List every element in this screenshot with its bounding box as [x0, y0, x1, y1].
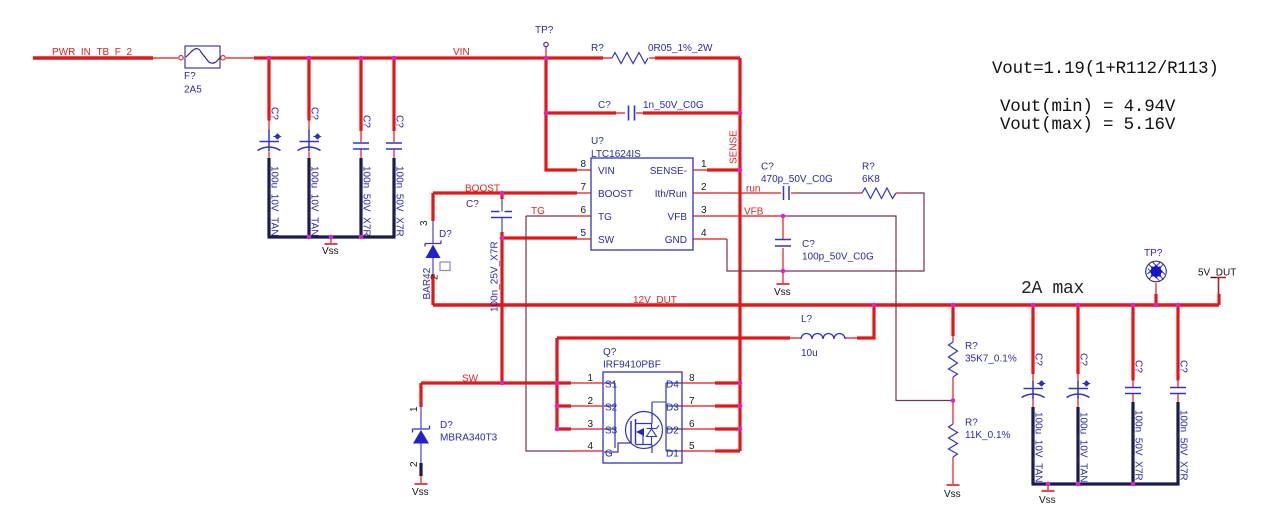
svg-text:MBRA340T3: MBRA340T3 [440, 433, 498, 444]
wire input cap1 top [267, 58, 270, 121]
svg-text:Vss: Vss [774, 287, 791, 298]
wire GND pin4 [707, 238, 727, 240]
wire boost cap column bottom to SW [500, 232, 503, 383]
svg-text:5V_DUT: 5V_DUT [1198, 268, 1236, 279]
svg-text:D?: D? [439, 229, 452, 240]
port 5V_DUT bar [1211, 278, 1226, 295]
svg-text:2: 2 [701, 182, 707, 193]
wire input Vss stub [330, 237, 332, 243]
svg-text:R?: R? [965, 418, 978, 429]
svg-text:5: 5 [689, 441, 695, 452]
svg-text:IRF9410PBF: IRF9410PBF [603, 360, 661, 371]
wire 6K8 stubs [858, 192, 901, 194]
junction dot divider [951, 398, 956, 403]
svg-text:VFB: VFB [744, 207, 764, 218]
wire input cap2 top [307, 58, 310, 121]
junction dots S bus [555, 404, 560, 409]
svg-text:G: G [605, 449, 613, 460]
svg-text:BAR42: BAR42 [422, 267, 433, 299]
svg-text:35K7_0.1%: 35K7_0.1% [965, 354, 1017, 365]
resistor R 35K7 zigzag [949, 342, 958, 377]
svg-text:SENSE-: SENSE- [650, 166, 687, 177]
svg-text:100u_10V_TAN: 100u_10V_TAN [1078, 412, 1089, 482]
wire input cap3 top [359, 58, 362, 131]
svg-text:C?: C? [466, 199, 479, 210]
svg-text:8: 8 [580, 159, 586, 170]
svg-text:C?: C? [269, 107, 280, 120]
svg-text:C?: C? [394, 115, 405, 128]
wire VFB net [783, 216, 953, 401]
wire ith network [727, 193, 924, 271]
fuse F1 terminals [179, 56, 183, 60]
wire TG net [526, 216, 577, 451]
svg-text:D3: D3 [666, 403, 679, 414]
svg-text:100u_10V_TAN: 100u_10V_TAN [269, 166, 280, 236]
svg-text:TG: TG [531, 206, 545, 217]
wire MBRA gnd segment [419, 463, 422, 476]
svg-text:8: 8 [689, 373, 695, 384]
svg-text:470p_50V_C0G: 470p_50V_C0G [761, 174, 833, 185]
svg-text:TP?: TP? [1144, 248, 1163, 259]
capacitor C input2 plus [313, 134, 321, 139]
junction dots 12V rail [872, 303, 877, 308]
capacitor C out4 100n plates [1170, 388, 1186, 394]
svg-text:TP?: TP? [535, 25, 554, 36]
wire PWR_IN segment [33, 56, 153, 59]
svg-text:BOOST: BOOST [465, 184, 500, 195]
svg-text:C?: C? [1133, 360, 1144, 373]
IC U1 body [591, 158, 693, 250]
resistor R 6K8 zigzag [862, 188, 896, 199]
svg-text:10u: 10u [801, 348, 818, 359]
wire output cap tops [1033, 305, 1178, 381]
svg-text:100u_10V_TAN: 100u_10V_TAN [309, 166, 320, 236]
junction dots SW line [500, 381, 505, 386]
svg-text:3: 3 [419, 220, 430, 226]
wire 1n cap line [546, 111, 740, 114]
svg-text:GND: GND [665, 235, 687, 246]
svg-text:S3: S3 [605, 426, 618, 437]
wire out TP thick [1154, 294, 1157, 305]
capacitor C out1 100u plates [1022, 381, 1045, 399]
transistor Q1 body diode [652, 402, 667, 428]
svg-text:D1: D1 [666, 449, 679, 460]
wire run to 470p [707, 192, 781, 194]
svg-text:C?: C? [1078, 353, 1089, 366]
svg-text:C?: C? [1033, 353, 1044, 366]
svg-text:C?: C? [802, 239, 815, 250]
transistor Q1 inner drain bus [666, 383, 682, 451]
diode D BAR42 [425, 221, 441, 274]
svg-text:Q?: Q? [603, 347, 617, 358]
ground Vss MBRA [415, 483, 428, 485]
svg-text:PWR_IN_TB_F_2: PWR_IN_TB_F_2 [52, 47, 132, 58]
capacitor C input1 100u plates [258, 130, 281, 152]
svg-text:100n_50V_X7R: 100n_50V_X7R [394, 166, 405, 237]
resistor R 0R05 zigzag [612, 53, 648, 64]
wire 100p to Vss [782, 271, 784, 283]
diode D MBRA340T3 [413, 407, 430, 463]
svg-text:C?: C? [598, 100, 611, 111]
resistor R 11K zigzag [949, 424, 958, 457]
transistor Q1 gate path [604, 443, 631, 452]
wire S2 S3 stubs [557, 406, 571, 429]
junction dots VFB node [781, 214, 786, 219]
svg-text:2A max: 2A max [1021, 279, 1084, 299]
svg-text:100n_50V_X7R: 100n_50V_X7R [361, 166, 372, 237]
ground Vss output caps [1042, 490, 1055, 492]
svg-text:1: 1 [409, 406, 420, 412]
transistor Q1 circle [626, 412, 663, 449]
svg-text:6: 6 [689, 419, 695, 430]
wire BAR42 column [431, 193, 434, 305]
svg-text:VFB: VFB [668, 212, 688, 223]
capacitor C 1n plates [629, 106, 635, 121]
svg-text:4: 4 [587, 441, 593, 452]
wire input cap4 top [392, 58, 395, 131]
svg-text:7: 7 [580, 182, 586, 193]
wire 5V_DUT drop [1217, 294, 1220, 305]
transistor Q1 pin stubs [571, 383, 715, 451]
wire pin1 SENSE- [707, 168, 740, 171]
svg-text:SENSE: SENSE [729, 130, 740, 164]
svg-text:C?: C? [1178, 360, 1189, 373]
svg-text:7: 7 [689, 396, 695, 407]
wire Q drain stubs [715, 383, 740, 451]
test point TP output [1146, 261, 1167, 282]
svg-text:5: 5 [580, 228, 586, 239]
svg-text:D2: D2 [666, 426, 679, 437]
svg-text:3: 3 [587, 419, 593, 430]
svg-text:Vout(min) = 4.94V: Vout(min) = 4.94V [1000, 97, 1176, 117]
capacitor C out2 plus [1082, 381, 1090, 386]
wire VFB pin3 [707, 215, 783, 217]
svg-text:100p_50V_C0G: 100p_50V_C0G [802, 252, 874, 263]
junction dots drain bus [738, 381, 743, 386]
transistor Q1 inner source bus [604, 383, 615, 448]
capacitor C 470p plates [784, 186, 790, 200]
svg-text:4: 4 [701, 228, 707, 239]
svg-text:Vss: Vss [1039, 495, 1056, 506]
svg-text:100u_10V_TAN: 100u_10V_TAN [1033, 412, 1044, 482]
wire divider middle [952, 377, 954, 424]
wire 100p bottom stub [782, 248, 784, 271]
wire 12V_DUT rail [433, 303, 1219, 306]
wire BOOST [433, 191, 577, 194]
wire output Vss stub [1047, 484, 1049, 490]
wire inductor to rail [857, 305, 874, 338]
svg-text:SW: SW [462, 374, 479, 385]
transistor Q1 channel [635, 419, 637, 445]
junction dot boost cap top [500, 191, 505, 196]
transistor Q1 terminals [636, 402, 653, 453]
transistor Q1 gate bar [630, 421, 632, 443]
transistor Q1 arrow [636, 428, 644, 436]
wire boost cap column top [500, 194, 503, 199]
wire 1n cap plate stubs [616, 112, 643, 114]
svg-text:2: 2 [430, 274, 441, 280]
junction dots top rail [267, 56, 272, 61]
fuse F1 curve [186, 49, 220, 63]
fuse F1 body [185, 46, 220, 68]
transistor Q1 body [603, 372, 682, 463]
svg-text:Vout(max) = 5.16V: Vout(max) = 5.16V [1000, 115, 1176, 135]
svg-text:run: run [746, 184, 760, 195]
svg-text:L?: L? [801, 314, 813, 325]
junction dots input bus [307, 235, 312, 240]
svg-text:100n_25V_X7R: 100n_25V_X7R [490, 241, 501, 312]
test point TP top circle [544, 42, 548, 46]
wire 35K7 top [951, 305, 954, 336]
svg-text:C?: C? [309, 107, 320, 120]
wire TP stub [545, 47, 547, 58]
svg-text:R?: R? [862, 162, 875, 173]
capacitor C input1 plus [273, 134, 281, 139]
capacitor C out2 100u plates [1067, 381, 1090, 399]
svg-text:BOOST: BOOST [598, 189, 633, 200]
svg-text:D?: D? [440, 420, 453, 431]
svg-text:SW: SW [598, 235, 615, 246]
svg-text:Vss: Vss [412, 487, 429, 498]
capacitor C input4 100n plates [386, 143, 402, 149]
svg-text:100n_50V_X7R: 100n_50V_X7R [1133, 410, 1144, 481]
svg-text:1n_50V_C0G: 1n_50V_C0G [643, 100, 704, 111]
inductor L1 humps [801, 334, 845, 340]
junction dots output bus [1046, 482, 1051, 487]
capacitor C out1 plus [1037, 381, 1045, 386]
wire 470p stub [791, 192, 796, 194]
svg-text:C?: C? [761, 162, 774, 173]
wire output cap gnd bus [1032, 402, 1180, 484]
svg-text:3: 3 [701, 205, 707, 216]
svg-text:2: 2 [587, 396, 593, 407]
svg-text:F?: F? [184, 71, 196, 82]
wire MBRA to Vss [420, 476, 422, 483]
svg-text:6: 6 [580, 205, 586, 216]
svg-text:D4: D4 [666, 380, 679, 391]
wire SW line [421, 381, 571, 384]
wire SW pin5 [502, 236, 577, 239]
capacitor C 100p plates [775, 240, 791, 247]
wire 11K to Vss [952, 457, 954, 484]
wire S-pins vertical [555, 338, 558, 429]
wire input cap gnd bus [268, 158, 396, 237]
ground Vss divider [947, 484, 960, 486]
svg-text:R?: R? [591, 43, 604, 54]
svg-text:TG: TG [598, 212, 612, 223]
svg-text:U?: U? [591, 136, 604, 147]
wire MBRA column [419, 383, 422, 407]
capacitor C input3 100n plates [353, 143, 369, 149]
capacitor C boost pin stubs [501, 199, 503, 232]
wire fuse links [153, 57, 254, 59]
wire VIN rail [254, 56, 740, 59]
svg-text:11K_0.1%: 11K_0.1% [965, 430, 1011, 441]
svg-text:Vss: Vss [944, 489, 961, 500]
svg-text:12V_DUT: 12V_DUT [633, 295, 677, 306]
IC U1 pin stubs [577, 170, 707, 239]
wire input cap1 mid [269, 150, 394, 159]
wire SENSE vertical [738, 58, 741, 451]
wire out TP stub [1155, 283, 1157, 294]
svg-text:2A5: 2A5 [184, 85, 202, 96]
ground Vss 100p [777, 283, 790, 285]
svg-text:2: 2 [409, 461, 420, 467]
wire inductor stubs [790, 337, 857, 339]
svg-text:1: 1 [701, 159, 707, 170]
capacitor C boost plates [491, 212, 512, 218]
svg-text:C?: C? [361, 115, 372, 128]
svg-text:VIN: VIN [598, 166, 615, 177]
svg-text:S1: S1 [605, 380, 618, 391]
wire R sense stubs [603, 57, 655, 59]
svg-text:100n_50V_X7R: 100n_50V_X7R [1178, 410, 1189, 481]
marker BAR42 square [440, 262, 450, 271]
svg-text:R?: R? [965, 341, 978, 352]
junction dot boost cap bottom [500, 236, 505, 241]
capacitor C input2 100u plates [298, 130, 321, 152]
svg-text:VIN: VIN [453, 47, 470, 58]
svg-text:S2: S2 [605, 403, 618, 414]
svg-text:0R05_1%_2W: 0R05_1%_2W [648, 43, 713, 54]
svg-text:LTC1624IS: LTC1624IS [591, 149, 641, 160]
junction dot pin1 [738, 168, 743, 173]
wire VIN down to pin8 [546, 58, 577, 170]
wire 100p top stub [782, 216, 784, 239]
svg-text:Vout=1.19(1+R112/R113): Vout=1.19(1+R112/R113) [992, 59, 1219, 79]
svg-text:1: 1 [587, 373, 593, 384]
capacitor C out3 100n plates [1125, 388, 1141, 394]
junction dots 1n line [544, 111, 549, 116]
ground Vss input caps [325, 243, 338, 245]
wire 35K7 stub [952, 336, 954, 342]
svg-text:6K8: 6K8 [862, 174, 880, 185]
wire SW to inductor [557, 336, 790, 339]
svg-text:Vss: Vss [322, 246, 339, 257]
svg-text:Ith/Run: Ith/Run [655, 189, 687, 200]
